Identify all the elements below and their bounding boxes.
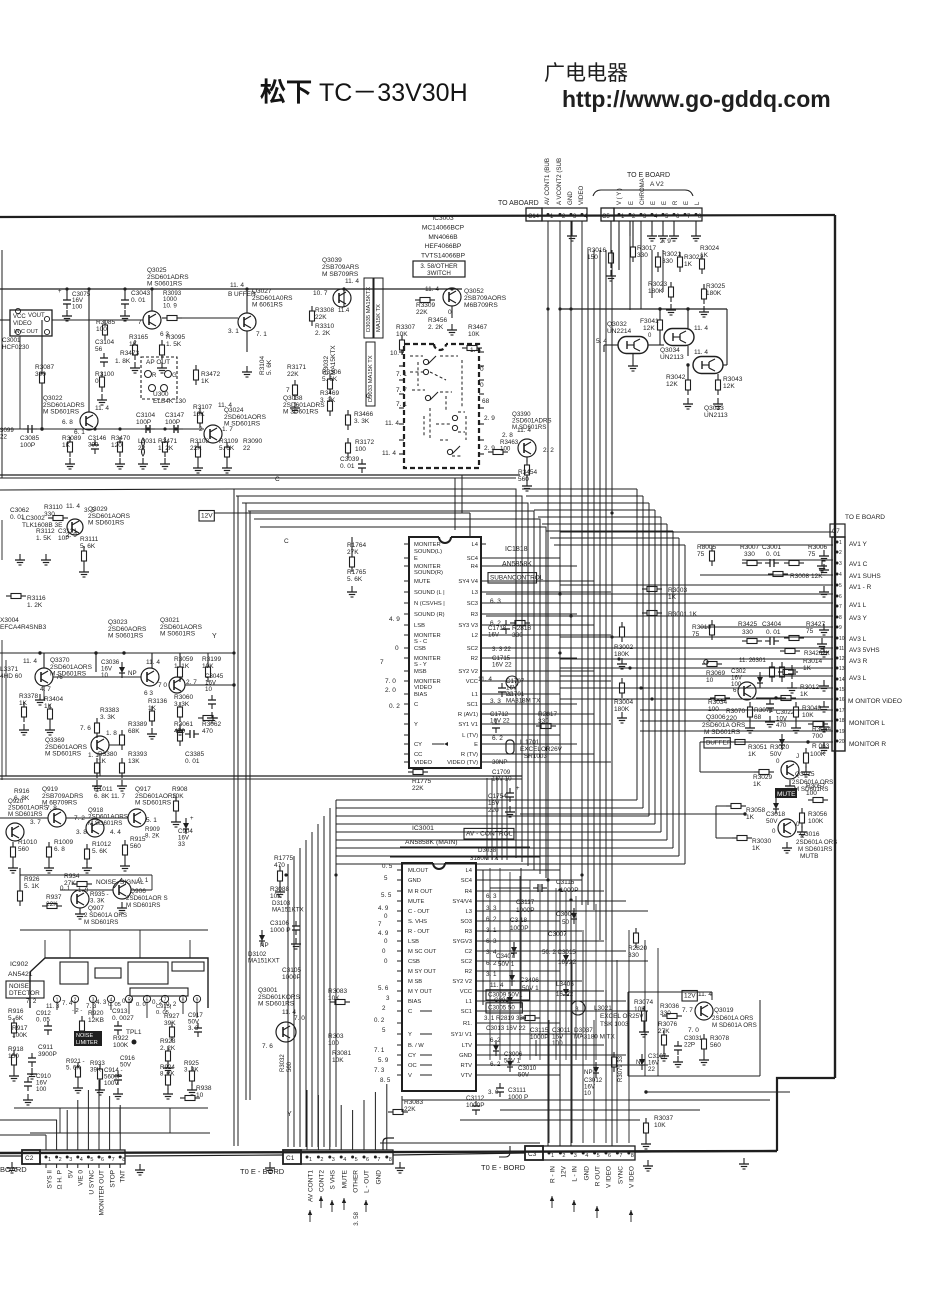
svg-text:5. 6K: 5. 6K [92,848,108,855]
wire rail y779 [0,778,522,780]
svg-text:C1754: C1754 [488,793,507,800]
svg-text:560: 560 [710,1042,721,1049]
ground [645,1138,647,1144]
svg-text:B. / W: B. / W [408,1043,424,1049]
ic C3001 box [10,310,52,336]
wire nest2 feed [534,509,655,511]
svg-text:3. 1: 3. 1 [486,971,497,978]
svg-text:7: 7 [619,1153,622,1159]
svg-text:1. 5K: 1. 5K [166,341,182,348]
wire c7row [700,626,833,628]
svg-text:R303: R303 [328,1033,344,1040]
transistor Q3019 [695,1002,713,1020]
svg-text:2. 9: 2. 9 [660,238,671,245]
ground c7 side [823,550,825,556]
svg-text:5: 5 [355,1157,358,1163]
wire nest [242,503,528,866]
svg-text:0. 01: 0. 01 [340,463,355,470]
wire [659,309,661,315]
resistor R3107 [199,408,201,413]
svg-text:0: 0 [772,828,776,835]
svg-text:1. 5K: 1. 5K [36,535,52,542]
wire [311,832,313,1147]
wire [317,824,319,1147]
svg-text:SUBANCONTROL: SUBANCONTROL [490,575,544,582]
wire [548,1020,550,1143]
ic IC3003 body [434,344,446,350]
wire bus [618,221,620,268]
pin circles vcc box [15,308,20,313]
svg-text:AV3 L: AV3 L [849,636,867,643]
svg-text:D3032: D3032 [323,355,330,375]
wire [585,900,587,1060]
arrow CY [432,743,444,745]
svg-text:0. 01: 0. 01 [766,629,781,636]
svg-text:22K: 22K [416,309,428,316]
svg-text:MA15KTX: MA15KTX [330,345,337,375]
svg-text:N (CSVHS |: N (CSVHS | [414,601,445,607]
svg-text:16V22: 16V22 [558,959,576,966]
connector C3 [525,1146,543,1160]
svg-text:4. 7: 4. 7 [40,686,51,693]
svg-text:1. 8K: 1. 8K [115,358,131,365]
svg-text:1K: 1K [800,691,809,698]
svg-text:R3111: R3111 [80,536,99,543]
transistor Q3370 [35,668,53,686]
svg-text:R922: R922 [113,1035,129,1042]
svg-text:7: 7 [377,1157,380,1163]
svg-text:R: R [152,373,157,379]
svg-text:2. 8: 2. 8 [502,432,513,439]
svg-text:C3115: C3115 [530,1027,549,1034]
svg-text:CY: CY [414,742,422,748]
svg-text:E: E [651,201,657,205]
wire rail y513 [214,512,470,514]
svg-text:R2820: R2820 [628,945,648,952]
capacitor C904 [183,823,189,829]
svg-text:7: 7 [378,921,382,928]
svg-text:68: 68 [754,714,762,721]
svg-text:56: 56 [95,346,103,353]
svg-text:3. 3K: 3. 3K [90,897,105,904]
ic 3.58/OTHER SWITCH box [413,261,465,277]
svg-text:R3056: R3056 [808,811,828,818]
svg-text:22K: 22K [412,785,424,792]
svg-text:4. 9: 4. 9 [389,616,400,623]
wire nest [230,489,516,858]
svg-text:R3030: R3030 [752,838,772,845]
svg-text:M SD601A ORS: M SD601A ORS [712,1022,757,1029]
svg-text:C3121: C3121 [58,528,78,535]
svg-text:4: 4 [343,1157,346,1163]
svg-text:C3062: C3062 [10,507,30,514]
svg-text:M SD601RS: M SD601RS [45,751,82,758]
wire C3 stub hook [499,1146,510,1157]
svg-text:C - OUT: C - OUT [408,909,430,915]
svg-text:NP: NP [128,670,137,677]
ground [571,230,573,236]
svg-text:7: 7 [286,387,290,394]
svg-text:7. 1: 7. 1 [256,331,267,338]
ground [13,1070,15,1076]
svg-text:CY: CY [408,1053,416,1059]
switch S1 [423,359,428,364]
svg-text:1K: 1K [746,814,755,821]
wire rail ic902 bottom [14,1107,208,1109]
capacitor C3147 [169,428,174,430]
transistor Q3024 [204,425,222,443]
resistor R3172 [347,438,349,443]
wire [628,991,712,993]
wire [490,887,530,889]
svg-text:R3404: R3404 [44,696,64,703]
svg-text:MONITER: MONITER [414,542,441,548]
svg-text:R8005: R8005 [697,544,717,551]
wire ic902 pin stubs [56,1003,58,1010]
svg-text:C3116: C3116 [556,879,575,886]
wire arrow [331,1200,333,1212]
svg-text:6. 2: 6. 2 [486,916,497,923]
svg-text:75: 75 [697,551,705,558]
svg-text:3. 1: 3. 1 [486,927,497,934]
svg-text:11. 4: 11. 4 [66,503,80,510]
wire [605,908,607,1060]
svg-text:Ω H. P: Ω H. P [57,1170,64,1189]
svg-text:R: R [673,200,679,205]
svg-text:11. 2: 11. 2 [739,657,753,664]
arrows ic3001 [420,1010,432,1012]
wire c7row [486,615,833,617]
svg-text:12K: 12K [723,383,735,390]
svg-text:R3025: R3025 [706,283,726,290]
wire nest2 [672,531,674,848]
wire [501,778,503,860]
svg-text:10: 10 [839,636,845,642]
svg-text:X3004: X3004 [0,617,19,624]
wire nest2 feed [542,523,667,525]
svg-text:7. 2: 7. 2 [26,998,37,1005]
wire c7row [560,531,833,533]
svg-text:R3010: R3010 [692,624,712,631]
svg-text:20: 20 [839,739,845,745]
svg-text:3. 7: 3. 7 [30,819,41,826]
transistor Q906 [113,881,131,899]
svg-text:R3309: R3309 [416,302,436,309]
svg-text:VCC: VCC [466,679,478,685]
svg-text:1: 1 [309,1157,312,1163]
svg-text:MA151KTX: MA151KTX [272,906,304,913]
svg-text:R2: R2 [471,656,478,662]
svg-text:100: 100 [328,1040,339,1047]
svg-text:R4: R4 [471,564,479,570]
svg-text:50V 1: 50V 1 [504,1057,521,1064]
svg-text:M SD601RS: M SD601RS [135,800,172,807]
wire [0,1007,1,1009]
svg-text:11. 3: 11. 3 [46,1003,60,1010]
svg-text:R916: R916 [14,788,30,795]
svg-text:27K: 27K [347,549,359,556]
wire c7row [560,602,833,604]
svg-text:11. 4: 11. 4 [478,676,492,683]
svg-text:R4: R4 [465,889,473,895]
wire [323,816,325,1147]
resistor R3025 [703,284,705,289]
transistor Q907 [71,890,89,908]
svg-text:U300: U300 [153,391,169,398]
svg-text:R (TV): R (TV) [461,752,478,758]
svg-text:7. 0: 7. 0 [294,1015,305,1022]
svg-text:R3069: R3069 [706,670,726,677]
wire [336,799,637,801]
svg-text:22K: 22K [287,371,299,378]
wire [575,896,577,1060]
svg-text:L3: L3 [472,590,478,596]
wire c7row [640,709,833,711]
svg-text:R1009: R1009 [54,839,74,846]
svg-text:10: 10 [584,1090,591,1097]
resistor R3043 [717,375,719,380]
wire bus [593,250,595,910]
svg-text:R3057: R3057 [806,783,826,790]
svg-text:5. 6K: 5. 6K [8,1015,24,1022]
svg-text:CHROMA: CHROMA [640,178,646,205]
svg-text:BOARD: BOARD [0,1165,27,1174]
svg-text:GND: GND [567,191,574,205]
svg-text:14: 14 [839,677,845,683]
svg-text:50V: 50V [120,1061,132,1068]
wire [716,805,726,807]
svg-text:T0 E - BORD: T0 E - BORD [481,1163,526,1172]
wire c7row [560,584,833,586]
svg-text:11. 4: 11. 4 [345,278,359,285]
wire bus [662,250,664,292]
svg-text:5: 5 [382,1027,386,1034]
svg-text:SC1: SC1 [461,1009,472,1015]
svg-text:R3004: R3004 [614,699,634,706]
svg-text:R923: R923 [160,1038,176,1045]
wire [555,888,557,1060]
svg-text:2: 2 [199,426,203,433]
svg-text:R3024: R3024 [700,245,720,252]
wire right step border [777,1078,835,1151]
wire [66,289,68,295]
svg-text:R3023: R3023 [648,281,668,288]
svg-text:1. 2K: 1. 2K [27,602,43,609]
wire [616,960,618,1143]
wire [491,778,493,860]
svg-text:10K: 10K [468,331,480,338]
svg-text:1. 8: 1. 8 [106,730,117,737]
svg-text:1K: 1K [700,252,709,259]
wire [506,778,508,860]
svg-text:R1010: R1010 [18,839,38,846]
resistor R3306 [329,374,331,379]
svg-text:R3136: R3136 [148,698,168,705]
junction dots on rails [65,287,68,290]
resistor R3454 [526,460,528,465]
svg-text:100P: 100P [165,419,180,426]
svg-text:7. 0: 7. 0 [688,1027,699,1034]
svg-text:LIMITER: LIMITER [76,1040,98,1046]
svg-text:R3112: R3112 [36,528,55,535]
svg-text:SO3: SO3 [460,919,472,925]
svg-text:广电电器: 广电电器 [544,62,628,85]
resistor R3041 body [659,315,661,320]
ground [83,566,85,572]
capacitor C3104b [141,428,146,430]
svg-text:5. 6K: 5. 6K [322,376,338,383]
wire c7row [560,667,833,669]
svg-text:1K: 1K [201,378,210,385]
svg-text:0: 0 [384,958,388,965]
svg-text:SY1 V1: SY1 V1 [458,722,478,728]
svg-text:3180M TX: 3180M TX [470,855,498,862]
transistor Q3034 [664,329,694,346]
wire [559,990,561,1143]
capacitor C3043 [124,295,126,300]
wire [336,823,655,825]
svg-text:Y: Y [287,1111,292,1118]
ground [749,722,751,728]
svg-text:M S0601RS: M S0601RS [108,633,144,640]
svg-text:LTV: LTV [462,1043,472,1049]
svg-text:16V 22: 16V 22 [492,661,512,668]
resistor R3024 [701,254,703,259]
svg-text:1. 4: 1. 4 [470,347,481,354]
transistor Q3026 [143,311,161,329]
wire [628,930,630,1143]
wire voltage box verticals [482,870,484,1005]
svg-text:Q3006: Q3006 [706,714,726,721]
wire [571,221,573,230]
switch S3 [425,395,430,400]
svg-text:3: 3 [332,1157,335,1163]
ground [96,780,98,786]
capacitor C3104 [103,353,105,358]
svg-text:6. 2: 6. 2 [492,735,503,742]
wire c7row [560,636,833,638]
capacitor C3039 [361,459,363,464]
svg-text:C3111: C3111 [508,1087,526,1094]
svg-text:R3083: R3083 [404,1099,424,1106]
wire bus [640,221,642,309]
svg-text:CONT2: CONT2 [319,1170,326,1192]
svg-text:18: 18 [839,718,845,724]
svg-text:T0 E - BORD: T0 E - BORD [240,1167,285,1176]
svg-text:M SD601RS: M SD601RS [258,1001,295,1008]
transistor Q3015 [781,761,799,779]
svg-text:SY4/V4: SY4/V4 [452,899,472,905]
svg-text:AV CONT1: AV CONT1 [308,1170,315,1202]
svg-text:M SD601RS: M SD601RS [43,409,80,416]
svg-text:R 063: R 063 [812,743,830,750]
svg-text:13K: 13K [128,758,140,765]
svg-text:0: 0 [448,309,452,316]
wire rail y1100 [402,1099,770,1101]
svg-text:MUTE: MUTE [408,899,425,905]
svg-text:11. 4: 11. 4 [146,659,160,666]
transistor Q3033 [693,357,723,374]
svg-text:7. 7: 7. 7 [396,387,407,394]
connector C7 [830,524,845,537]
svg-text:0: 0 [95,378,99,385]
svg-text:UN2113: UN2113 [660,354,684,361]
svg-text:AV3 R: AV3 R [849,658,868,665]
svg-text:0: 0 [480,366,484,373]
svg-text:6. 8K 11. 7: 6. 8K 11. 7 [94,793,125,800]
svg-text:R3473: R3473 [120,350,140,357]
svg-text:7. 1: 7. 1 [396,371,407,378]
wire nest2 feed [550,537,679,539]
svg-text:7: 7 [380,659,384,666]
wire ic902 drop [59,1108,61,1133]
svg-text:68: 68 [482,398,490,405]
svg-text:1. 2K: 1. 2K [158,445,174,452]
svg-text:R3037: R3037 [654,1115,674,1122]
svg-text:0. 0027: 0. 0027 [112,1015,134,1022]
svg-text:F3041: F3041 [640,318,659,325]
svg-text:0. 01: 0. 01 [766,551,781,558]
wire nest2 feed [522,488,637,490]
svg-text:0: 0 [796,821,800,828]
svg-text:2. 2K: 2. 2K [428,324,444,331]
svg-text:IC902: IC902 [10,961,28,968]
wire [43,653,45,668]
svg-text:HCF0230: HCF0230 [2,344,29,351]
svg-text:9: 9 [839,625,842,631]
svg-text:R3002: R3002 [614,644,634,651]
svg-text:MA3180 M TX: MA3180 M TX [574,1034,615,1041]
svg-text:Q3052: Q3052 [464,288,484,295]
svg-text:R (AV1): R (AV1) [458,712,478,718]
svg-text:R915: R915 [130,836,146,843]
transistor Q3016 [778,819,796,837]
svg-text:V IDEO: V IDEO [629,1166,636,1188]
svg-text:L1: L1 [472,692,478,698]
svg-text:L - OUT: L - OUT [364,1170,371,1193]
svg-text:6 3: 6 3 [144,690,153,697]
svg-text:R3012: R3012 [800,684,820,691]
svg-text:100K: 100K [808,818,824,825]
svg-text:11. 4: 11. 4 [230,282,244,289]
wire rail y1133 left [30,1132,210,1134]
svg-text:10: 10 [101,672,108,679]
svg-text:MUTE: MUTE [342,1169,349,1188]
wire [632,354,634,360]
wire [575,1040,577,1056]
wire bus [651,250,653,298]
svg-text:R3014: R3014 [803,658,823,665]
svg-text:Q907: Q907 [88,905,104,912]
svg-text:EXCEL OR25V: EXCEL OR25V [600,1013,644,1020]
transistor Q918b [86,819,104,837]
svg-text:C3106: C3106 [270,920,290,927]
svg-text:R3467: R3467 [468,324,488,331]
wire arrow [309,1210,311,1222]
svg-text:M SD601RS: M SD601RS [84,919,118,926]
svg-text:3: 3 [839,561,842,567]
svg-text:10K: 10K [328,995,340,1002]
wire [0,817,48,819]
svg-text:Y: Y [414,722,418,728]
svg-text:C1: C1 [286,1155,295,1162]
svg-text:330: 330 [637,252,648,259]
svg-text:M ONITOR ViDEO: M ONITOR ViDEO [848,698,902,705]
svg-text:R3007: R3007 [740,544,760,551]
svg-text:100: 100 [72,303,83,310]
ic IC1818 pin ticks left [404,543,409,545]
svg-text:C911: C911 [38,1044,53,1051]
